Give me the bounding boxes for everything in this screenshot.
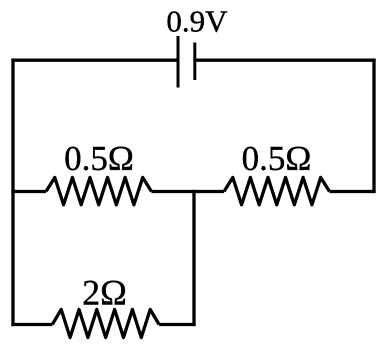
wire bottom-left stub (11, 323, 52, 326)
svg-text:0.9V: 0.9V (166, 4, 228, 39)
wire bottom-right stub (159, 323, 196, 326)
wire middle vertical (192, 190, 195, 326)
wire top-left (battery left lead) (11, 59, 178, 62)
wire right vertical (372, 59, 375, 194)
wire middle-row center segment (152, 190, 225, 193)
battery B1 long plate (177, 36, 180, 88)
resistor R1 0.5ohm zigzag (46, 178, 152, 205)
wire top-right (battery right lead) (195, 59, 376, 62)
svg-text:0.5Ω: 0.5Ω (242, 139, 312, 178)
resistor R3 2ohm zigzag (52, 310, 159, 338)
battery B1 short plate (193, 43, 196, 81)
wire middle-row right stub (330, 190, 376, 193)
wire middle-row left stub (11, 190, 46, 193)
svg-text:2Ω: 2Ω (82, 273, 127, 313)
wire left vertical (11, 59, 14, 327)
resistor R2 0.5ohm zigzag (224, 178, 330, 205)
svg-text:0.5Ω: 0.5Ω (64, 139, 134, 178)
